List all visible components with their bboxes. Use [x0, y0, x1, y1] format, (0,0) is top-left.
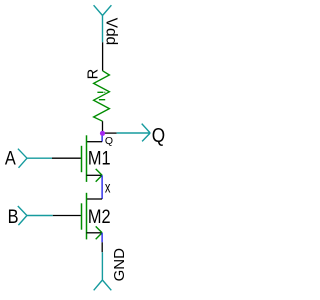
wire M2 source to GND (blue segment)	[101, 233, 103, 243]
wire node Q to output	[103, 132, 117, 134]
svg-text:A: A	[5, 147, 16, 168]
M2 source arrow	[96, 226, 102, 239]
svg-text:GND: GND	[111, 248, 128, 282]
svg-text:R: R	[85, 69, 101, 79]
svg-text:Q: Q	[152, 124, 165, 147]
M2 drain lead	[87, 198, 103, 200]
input port A terminal	[18, 149, 52, 168]
M1 gate bar	[81, 146, 83, 172]
M2 channel bar	[86, 193, 88, 240]
wire resistor to node Q	[102, 121, 104, 133]
M2 source lead	[87, 232, 103, 234]
resistor R	[94, 71, 110, 121]
GND port terminal	[94, 252, 112, 290]
wire M1 source to M2 drain (blue net x)	[101, 175, 103, 199]
output port Q terminal	[117, 124, 151, 142]
M2 gate bar	[81, 203, 83, 229]
wire gate M2	[53, 215, 81, 217]
input port B terminal	[18, 206, 53, 225]
resistor value marks 1k	[97, 92, 105, 99]
transistor M1	[82, 135, 103, 182]
svg-text:M1: M1	[88, 148, 111, 169]
svg-text:x: x	[105, 179, 111, 196]
wire Vdd to resistor	[102, 42, 104, 71]
svg-text:Vdd: Vdd	[102, 18, 119, 46]
svg-text:M2: M2	[88, 206, 111, 227]
node Q junction dot	[100, 131, 105, 136]
wire to GND (black segment)	[101, 242, 103, 252]
M1 source arrow	[96, 169, 102, 182]
M1 source lead	[87, 174, 103, 176]
wire gate M1	[52, 157, 81, 159]
Vdd port terminal	[94, 5, 112, 42]
transistor M2	[82, 193, 103, 240]
svg-text:B: B	[8, 206, 19, 227]
M1 channel bar	[86, 135, 88, 182]
svg-text:Q: Q	[105, 135, 113, 147]
wire node Q to M1 drain (blue net)	[101, 133, 103, 141]
M1 drain lead	[87, 141, 103, 143]
